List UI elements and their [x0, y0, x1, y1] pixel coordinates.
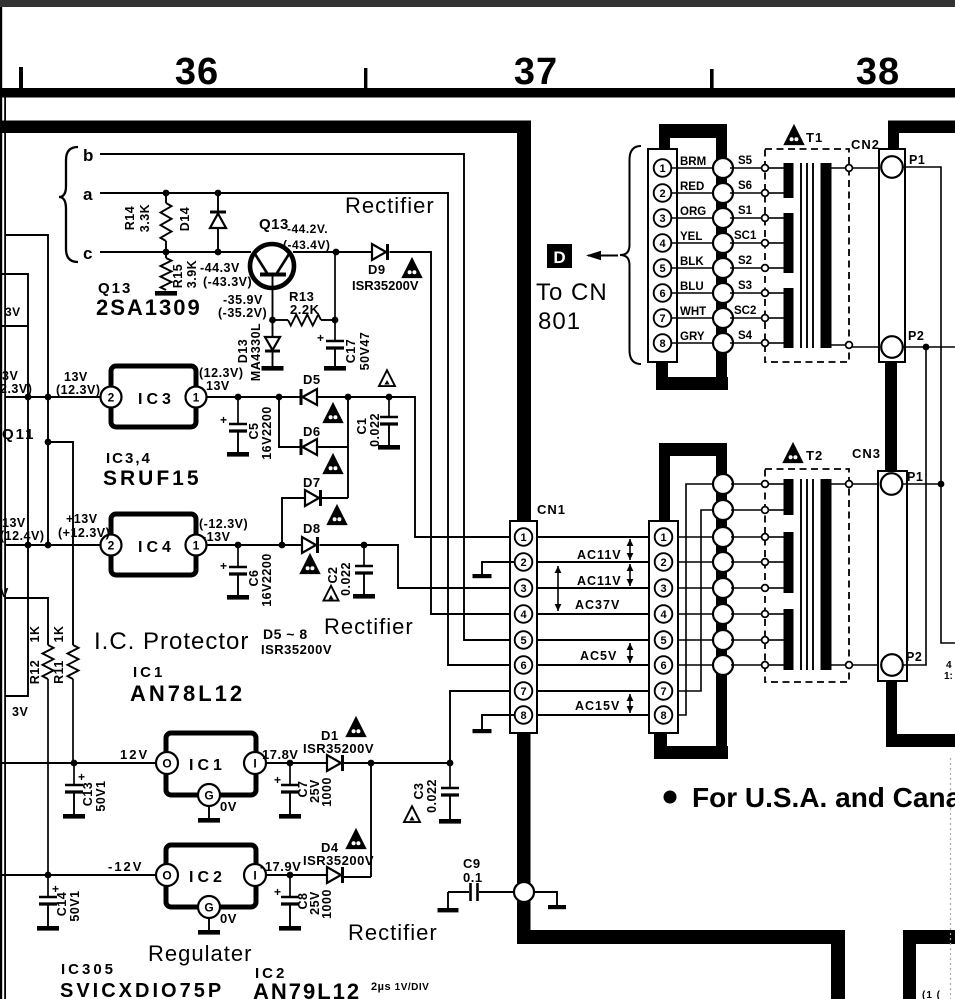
- T2 winding stub 5: [768, 587, 784, 589]
- wire D1 output node: [344, 762, 450, 764]
- svg-text:IC305: IC305: [61, 961, 116, 978]
- wire T1 to transformer row 5: [730, 267, 764, 269]
- T1 core lines: [800, 163, 802, 348]
- wire T1 row 2: [671, 192, 713, 194]
- wire T1 row 5: [671, 267, 713, 269]
- svg-text:Regulater: Regulater: [148, 941, 252, 966]
- svg-text:I: I: [253, 869, 256, 883]
- svg-text:S1: S1: [738, 205, 753, 217]
- svg-text:IC3,4: IC3,4: [106, 450, 152, 467]
- junction D6 return: [345, 394, 352, 401]
- AC15V arrow: [629, 694, 631, 713]
- connector CN1 right housing: [649, 521, 678, 733]
- page top scan bar: [0, 0, 955, 7]
- junction c-R14-R15: [163, 249, 170, 256]
- svg-text:1: 1: [520, 532, 526, 544]
- junction C6: [235, 542, 242, 549]
- detail marker D box: [547, 244, 572, 268]
- svg-text:C17: C17: [344, 339, 358, 363]
- wire CN1 row 7: [537, 690, 649, 692]
- svg-text:+: +: [274, 773, 282, 787]
- svg-text:1: 1: [193, 539, 200, 553]
- C2 ground: [353, 594, 375, 599]
- D8 warning triangle: [301, 555, 320, 574]
- wire D8 output to CN1 pin3: [320, 545, 516, 588]
- svg-text:BLK: BLK: [680, 256, 704, 268]
- svg-text:AC11V: AC11V: [577, 548, 622, 562]
- diode D7: [305, 490, 319, 506]
- T2 primary node bottom: [846, 662, 853, 669]
- thick wire below CN1 to C9 node: [517, 733, 531, 883]
- svg-text:BRM: BRM: [680, 156, 706, 168]
- T1 node 4: [762, 240, 769, 247]
- T1 secondary winding bar c: [784, 288, 794, 348]
- D13 ground: [262, 366, 284, 371]
- svg-text:3V: 3V: [5, 305, 21, 319]
- svg-text:O: O: [162, 869, 171, 883]
- svg-text:D8: D8: [303, 521, 321, 536]
- svg-text:CN1: CN1: [537, 502, 566, 517]
- thick wire C9 node down: [517, 901, 531, 932]
- svg-text:6: 6: [520, 660, 526, 672]
- T2 winding stub 1: [768, 483, 784, 485]
- svg-text:C6: C6: [247, 570, 261, 587]
- T1 connector pin 3: [654, 209, 672, 227]
- wire T1 to transformer row 7: [730, 317, 764, 319]
- svg-text:S4: S4: [738, 330, 753, 342]
- junction R12 C14 on -12V rail: [45, 872, 52, 879]
- CN1 right pin 1: [655, 528, 673, 546]
- svg-text:-44.2V.: -44.2V.: [287, 222, 328, 236]
- D5 warning triangle: [324, 404, 343, 423]
- wire T2 harness to transformer 4: [731, 561, 764, 563]
- C3 ground: [439, 819, 461, 824]
- wire T1 to transformer row 2: [730, 192, 764, 194]
- CN1 right pin 3: [655, 579, 673, 597]
- CN1 right pin 8: [655, 706, 673, 724]
- svg-text:V: V: [0, 586, 9, 600]
- CN1 right pin 5: [655, 631, 673, 649]
- wire R11 feed: [48, 442, 73, 645]
- svg-text:3.9K: 3.9K: [185, 260, 199, 288]
- IC1 ground: [208, 806, 210, 818]
- svg-text:2: 2: [520, 557, 526, 569]
- svg-text:IC1: IC1: [189, 757, 226, 774]
- svg-text:3: 3: [520, 583, 526, 595]
- T2 winding stub 8: [768, 664, 784, 666]
- svg-text:RED: RED: [680, 181, 704, 193]
- main border top bar: [0, 121, 531, 134]
- wire T1 to transformer row 8: [730, 342, 764, 344]
- T2 winding stub 2: [768, 509, 784, 511]
- T1 winding stub 5: [768, 267, 784, 269]
- T2 node 7: [762, 637, 769, 644]
- svg-text:1: 1: [659, 163, 665, 175]
- svg-text:(1 (: (1 (: [922, 990, 941, 999]
- T2 harness junction 3: [713, 527, 733, 547]
- T2 primary node top: [846, 481, 853, 488]
- page left border line: [4, 97, 6, 999]
- T2 feed bracket top: [659, 443, 727, 456]
- T2 winding stub 6: [768, 613, 784, 615]
- capacitor C1: [388, 397, 390, 417]
- wire CN1 pin6 to harness: [678, 664, 713, 666]
- svg-text:6: 6: [660, 660, 666, 672]
- AC11V arrow rows2-3: [629, 564, 631, 586]
- svg-text:8: 8: [520, 710, 526, 722]
- T1 node 8: [762, 340, 769, 347]
- svg-text:IC4: IC4: [138, 539, 175, 556]
- T2 node 1: [762, 481, 769, 488]
- transistor Q13: [250, 244, 294, 288]
- svg-text:+: +: [274, 885, 282, 899]
- wire CN1 pin2 to harness: [678, 561, 713, 563]
- svg-text:GRY: GRY: [680, 331, 705, 343]
- connector CN3 housing: [878, 471, 907, 681]
- resistor R15: [161, 258, 172, 290]
- svg-text:IC2: IC2: [189, 869, 226, 886]
- capacitor C9: [448, 891, 469, 893]
- resistor R11: [68, 645, 79, 679]
- wire T1 to transformer row 1: [730, 167, 764, 169]
- T2 bracket bottom bar: [654, 746, 728, 759]
- svg-text:D13: D13: [236, 339, 250, 363]
- svg-text:Rectifier: Rectifier: [348, 920, 438, 945]
- T2 warning triangle: [784, 444, 803, 463]
- wire a to CN1 pin6: [100, 193, 515, 665]
- svg-text:1:: 1:: [944, 671, 953, 682]
- wire CN1 row 6: [537, 664, 649, 666]
- transformer T2 outline: [765, 469, 849, 682]
- diode D9: [372, 244, 386, 260]
- wire b to CN1 pin5: [100, 154, 515, 640]
- svg-text:ISR35200V: ISR35200V: [303, 853, 374, 868]
- svg-text:37: 37: [514, 51, 558, 93]
- capacitor C5: [237, 397, 239, 424]
- svg-text:ISR35200V: ISR35200V: [352, 278, 419, 293]
- svg-text:AN78L12: AN78L12: [130, 681, 245, 706]
- T2 primary stub bottom: [831, 664, 849, 666]
- wire CN3 P1 branch: [902, 483, 941, 485]
- T1 node 7: [762, 315, 769, 322]
- svg-text:-12V: -12V: [108, 859, 143, 874]
- svg-text:D: D: [553, 248, 565, 267]
- svg-text:3V: 3V: [2, 369, 18, 383]
- T1 primary node top: [846, 165, 853, 172]
- T2 bracket left leg: [659, 454, 670, 522]
- junction a-R14: [163, 190, 170, 197]
- component stub box 3V upper: [2, 274, 28, 326]
- svg-text:36: 36: [175, 51, 219, 93]
- wire c left segment: [100, 251, 251, 253]
- svg-text:4: 4: [520, 609, 527, 621]
- wire T1 row 1: [671, 167, 713, 169]
- svg-text:13V: 13V: [2, 516, 26, 530]
- diode D4: [327, 867, 341, 883]
- T2 secondary winding bar c: [784, 609, 794, 670]
- T2 node 6: [762, 611, 769, 618]
- diode D6: [300, 439, 303, 455]
- svg-text:For U.S.A. and Cana: For U.S.A. and Cana: [692, 782, 955, 813]
- T2 core lines: [800, 479, 802, 670]
- svg-text:D5 ~ 8: D5 ~ 8: [263, 626, 308, 642]
- svg-text:ORG: ORG: [680, 206, 706, 218]
- svg-text:Rectifier: Rectifier: [345, 193, 435, 218]
- svg-text:3V: 3V: [12, 705, 28, 719]
- junction CN2 P2: [923, 344, 930, 351]
- wire CN1 pin4 to harness: [678, 613, 713, 615]
- T1 primary stub top: [831, 167, 849, 169]
- wire T1 to CN2 P2: [852, 346, 880, 348]
- CN1 left pin 1: [515, 528, 533, 546]
- svg-text:AC37V: AC37V: [575, 598, 620, 612]
- svg-text:0.022: 0.022: [368, 413, 382, 447]
- svg-text:I: I: [253, 757, 256, 771]
- T2 harness junction 8: [713, 655, 733, 675]
- svg-text:1000: 1000: [320, 889, 334, 919]
- T1 connector pin 6: [654, 284, 672, 302]
- regulator IC4: [111, 514, 196, 575]
- capacitor C14: [47, 875, 49, 897]
- D4 warning triangle: [347, 830, 366, 849]
- wire 12V rail: [2, 762, 156, 764]
- wire c right segment to D9: [293, 251, 372, 253]
- T1 connector pin 5: [654, 259, 672, 277]
- svg-text:R11: R11: [52, 660, 66, 684]
- svg-text:T2: T2: [806, 448, 823, 463]
- svg-text:13V: 13V: [206, 379, 230, 393]
- svg-text:WHT: WHT: [680, 306, 706, 318]
- svg-text:C2: C2: [326, 567, 340, 584]
- svg-text:7: 7: [659, 313, 665, 325]
- svg-text:0V: 0V: [220, 911, 237, 926]
- C9 right stub ground: [534, 892, 557, 905]
- svg-text:P1: P1: [907, 470, 923, 484]
- svg-text:0.022: 0.022: [425, 779, 439, 813]
- wire T1 to CN2 P1: [852, 167, 880, 169]
- svg-text:Q13: Q13: [259, 216, 289, 233]
- D1 warning triangle: [347, 718, 366, 737]
- svg-text:13V: 13V: [64, 370, 88, 384]
- thick bottom bus vertical: [831, 930, 845, 999]
- svg-text:P2: P2: [906, 650, 922, 664]
- right border top bar: [888, 121, 955, 134]
- T2 winding stub 4: [768, 561, 784, 563]
- wire -12V rail: [2, 874, 156, 876]
- T1 bracket bottom stem: [656, 362, 668, 380]
- svg-text:3.3K: 3.3K: [138, 204, 152, 232]
- CN1 right pin 7: [655, 682, 673, 700]
- T1 winding stub 8: [768, 342, 784, 344]
- CN1 left pin 5: [515, 631, 533, 649]
- svg-text:S3: S3: [738, 280, 752, 292]
- svg-text:4: 4: [660, 609, 667, 621]
- scan artifact dotted line right edge: [950, 758, 952, 999]
- T1 harness cable: [716, 136, 727, 390]
- svg-text:-44.3V: -44.3V: [200, 261, 240, 275]
- wire D7 anode branch: [282, 498, 305, 545]
- T1 primary winding bar: [821, 163, 832, 348]
- C13 ground: [63, 814, 85, 819]
- C1 ground: [378, 445, 400, 450]
- T1 harness junction 5: [713, 258, 733, 278]
- T1 node 6: [762, 290, 769, 297]
- wire T2 to CN3 P1: [852, 483, 880, 485]
- T2 secondary winding bar b: [784, 532, 794, 593]
- svg-text:T1: T1: [806, 130, 823, 145]
- svg-text:D6: D6: [303, 424, 321, 439]
- wire T2 harness to transformer 7: [731, 639, 764, 641]
- wire CN1 row 4: [537, 613, 649, 615]
- svg-text:IC3: IC3: [138, 391, 175, 408]
- svg-text:16V2200: 16V2200: [260, 406, 274, 460]
- wire T1 row 7: [671, 317, 713, 319]
- AC5V arrow: [629, 643, 631, 663]
- T1 harness junction 4: [713, 233, 733, 253]
- junction C2 node: [361, 542, 368, 549]
- svg-text:7: 7: [660, 686, 666, 698]
- C2 warning triangle: [324, 586, 339, 601]
- T1 harness junction 2: [713, 183, 733, 203]
- ruler tick left: [19, 67, 23, 90]
- svg-text:C14: C14: [55, 892, 69, 916]
- D7 warning triangle: [328, 506, 347, 525]
- thick bottom bus bar: [517, 930, 845, 944]
- svg-text:R12: R12: [28, 660, 42, 684]
- wire CN1 row 5: [537, 639, 649, 641]
- CN3 pin P2: [881, 654, 903, 676]
- T1 harness junction 6: [713, 283, 733, 303]
- wire T2 harness to transformer 6: [731, 613, 764, 615]
- svg-text:5: 5: [660, 635, 666, 647]
- wire IC4 output rail: [207, 544, 301, 546]
- transformer T1 outline: [765, 149, 849, 362]
- wire D6 branch: [279, 397, 301, 447]
- svg-text:16V2200: 16V2200: [260, 553, 274, 607]
- svg-text:P1: P1: [909, 153, 925, 167]
- svg-text:50V47: 50V47: [358, 332, 372, 371]
- ruler tick right: [710, 69, 714, 89]
- C1 warning triangle: [379, 370, 395, 386]
- junction R11 C13 on 12V rail: [71, 760, 78, 767]
- thick link CN2 to CN3: [885, 362, 897, 471]
- CN1 left pin 2: [515, 553, 533, 571]
- wire T2 harness to transformer 8: [731, 664, 764, 666]
- junction CN3 P1: [938, 481, 945, 488]
- T1 connector pin 7: [654, 309, 672, 327]
- wire CN1 row 1: [537, 536, 649, 538]
- svg-text:D14: D14: [178, 207, 192, 231]
- T1 winding stub 7: [768, 317, 784, 319]
- wire T2 to CN3 P2: [852, 664, 881, 666]
- thick wire CN3 down: [886, 681, 897, 738]
- T1 node 1: [762, 165, 769, 172]
- svg-text:50V1: 50V1: [68, 890, 82, 921]
- svg-text:38: 38: [856, 51, 900, 93]
- svg-text:C13: C13: [81, 782, 95, 806]
- T1 winding stub 6: [768, 292, 784, 294]
- T2 harness junction 5: [713, 578, 733, 598]
- wire D1-D4 link: [370, 763, 372, 877]
- C5 ground: [227, 452, 249, 457]
- svg-text:C9: C9: [463, 856, 481, 871]
- wire CN1 pin1 to harness: [678, 536, 713, 538]
- wire D5 output to CN1 pin1: [317, 397, 515, 537]
- C14 ground: [37, 926, 59, 931]
- wire D6-D7 vertical link: [347, 397, 349, 498]
- CN1 right pin 6: [655, 656, 673, 674]
- svg-text:-17.9V: -17.9V: [260, 859, 301, 874]
- junction D6 branch: [276, 394, 283, 401]
- capacitor C7: [289, 763, 291, 785]
- thick feed stem into CN2: [888, 131, 899, 151]
- svg-text:0V: 0V: [220, 799, 237, 814]
- svg-text:1000: 1000: [320, 777, 334, 807]
- svg-text:ISR35200V: ISR35200V: [261, 642, 332, 657]
- svg-text:+: +: [220, 413, 228, 427]
- svg-text:5: 5: [659, 263, 665, 275]
- T2 harness junction 2: [713, 500, 733, 520]
- wire D9 output to CN1 pin4: [390, 252, 516, 614]
- diode D13: [272, 320, 274, 337]
- junction C5: [235, 394, 242, 401]
- T1 primary stub bottom: [831, 344, 849, 346]
- brace for b a c nets: [59, 147, 78, 262]
- bottom right border corner: [903, 930, 916, 999]
- svg-text:801: 801: [538, 308, 581, 335]
- svg-text:S2: S2: [738, 255, 752, 267]
- svg-text:4: 4: [946, 660, 952, 671]
- T1 harness junction 3: [713, 208, 733, 228]
- T2 harness junction 7: [713, 630, 733, 650]
- CN1 right pin 2: [655, 553, 673, 571]
- junction rail IC4 row a: [25, 542, 32, 549]
- svg-text:8: 8: [659, 338, 665, 350]
- svg-text:3: 3: [660, 583, 666, 595]
- svg-text:1: 1: [193, 391, 200, 405]
- wire left rail vertical: [5, 326, 28, 696]
- T2 node 2: [762, 507, 769, 514]
- capacitor C8: [289, 875, 291, 897]
- svg-text:SVICXDIO75P: SVICXDIO75P: [60, 980, 224, 999]
- D6 warning triangle: [324, 455, 343, 474]
- wire T2 harness to transformer 1: [731, 483, 764, 485]
- wire CN2 P2 to CN3 P2: [903, 347, 926, 665]
- T1 node 5: [762, 265, 769, 272]
- svg-text:b: b: [83, 146, 94, 165]
- junction a-D14: [215, 190, 222, 197]
- regulator IC2: [166, 845, 256, 907]
- wire D6 output: [317, 446, 348, 448]
- AC11V arrow rows1-2: [629, 539, 631, 560]
- wire rectified output to CN1 pin7: [450, 691, 515, 763]
- C17 ground: [324, 366, 346, 371]
- T2 harness cable: [716, 454, 727, 759]
- svg-text:8: 8: [660, 710, 666, 722]
- C6 ground: [227, 595, 249, 600]
- svg-text:To CN: To CN: [536, 279, 608, 306]
- wire T1 to transformer row 6: [730, 292, 764, 294]
- svg-text:CN3: CN3: [852, 446, 881, 461]
- thick feed wire from border to CN1: [517, 121, 531, 523]
- T2 primary stub top: [831, 483, 849, 485]
- svg-text:AC5V: AC5V: [580, 649, 617, 663]
- svg-text:2: 2: [659, 188, 665, 200]
- svg-text:2: 2: [108, 391, 115, 405]
- svg-text:SC1: SC1: [734, 230, 757, 242]
- C3 warning triangle: [404, 806, 420, 822]
- wire D7 output: [322, 497, 348, 499]
